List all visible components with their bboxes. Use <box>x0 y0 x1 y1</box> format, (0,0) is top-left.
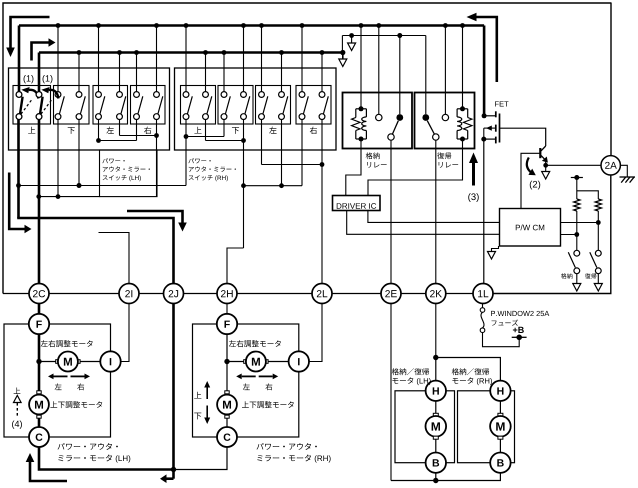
FET source node <box>481 137 496 142</box>
flow arrow (down, mid-left above 2J) <box>127 211 187 232</box>
transistor Q (relay driver) <box>540 146 548 163</box>
wire retract relay output to 2E <box>390 140 392 284</box>
label 左右調整モータ (LH) <box>41 340 93 347</box>
switch cell label 上 <box>28 127 35 134</box>
off-page arrow at relay feed <box>348 36 356 51</box>
switch cell label 右 <box>310 127 317 134</box>
switch RH 左L <box>259 23 268 119</box>
wire M1 to I (LH) <box>80 361 100 363</box>
RH mirror motor box <box>193 324 299 437</box>
thick path F-M-C (LH motor) <box>38 333 41 427</box>
terminal F (RH) <box>217 314 237 334</box>
ground arrow 復帰 switch <box>594 274 602 291</box>
return relay box (復帰リレー) <box>415 93 475 149</box>
label 右 (RH) <box>265 383 272 390</box>
connector 2H <box>217 284 237 304</box>
label 上下調整モータ (RH) <box>242 401 294 408</box>
wire RH link 左L-右R <box>262 120 325 167</box>
wire LH 左L to 右L <box>96 120 136 143</box>
label P/W CM <box>516 225 544 231</box>
wire branch to H(RH) <box>436 358 501 381</box>
flow arrow (left, top-right) <box>467 13 497 82</box>
wire right border 2A to 1L row <box>492 175 611 294</box>
arrow 左 (RH) <box>236 374 256 380</box>
label パワー・アウタ・ミラー・スイッチ(LH) <box>102 158 150 181</box>
wire RH 上R to 下R <box>206 120 246 143</box>
wire return coil to DRIVER IC <box>368 139 463 196</box>
switch RH 右L <box>299 23 308 119</box>
wire RH 下R to 2H <box>227 248 244 284</box>
outer frame wire (top and left border) <box>3 3 612 294</box>
label パワー・アウタ・ミラー・モータ (RH) <box>257 443 331 463</box>
label 左右調整モータ (RH) <box>229 340 281 347</box>
label +B <box>513 327 524 333</box>
motor M (RH retract) <box>490 401 511 453</box>
transistor emitter node <box>543 160 548 168</box>
wire P/W CM right lower <box>561 232 580 237</box>
switch LH 右R <box>154 23 163 119</box>
off-page arrow at bus B2 end <box>339 50 347 67</box>
terminal C (RH) <box>217 427 237 447</box>
label 上下調整モータ (LH) <box>50 401 102 408</box>
switch LH 上R (bold, actuated) <box>36 53 58 120</box>
resistor R1 <box>574 178 580 251</box>
wire relay contact feed <box>342 33 425 52</box>
2A chassis ground <box>620 165 636 182</box>
LH switch cell box 3 <box>93 86 128 125</box>
label (4) <box>12 420 22 428</box>
wire 2K junction to H(LH) <box>433 355 438 381</box>
DRIVER IC box <box>333 196 381 211</box>
terminal B (RH retract) <box>490 453 510 473</box>
switch LH 右L <box>134 50 143 119</box>
label 格納／復帰モータ (RH) <box>452 368 492 385</box>
wire P/W CM to transistor base <box>521 153 540 208</box>
wire C(RH) to junction <box>176 446 227 469</box>
label (1) left <box>24 75 34 83</box>
RH switch cell box 2 <box>218 86 253 125</box>
LH switch cell box 2 <box>54 86 90 125</box>
label P.WINDOW2 25A <box>491 311 549 316</box>
thick path 2J down to junction <box>171 303 176 479</box>
FET substrate arrow <box>484 126 496 140</box>
terminal H (RH retract) <box>490 381 510 401</box>
FET channel bars <box>495 111 497 143</box>
retract relay box (格納リレー) <box>343 93 413 149</box>
label 格納リレー <box>366 152 387 167</box>
wire DRIVER IC to P/W CM upper <box>368 211 500 223</box>
terminal I (RH) <box>289 351 309 371</box>
fuse P.WINDOW2 25A <box>480 303 485 332</box>
flow arrow (down, top-left) <box>6 17 49 57</box>
label 左 (RH) <box>243 383 250 390</box>
RH switch cell box 4 <box>296 86 331 125</box>
arrow 左 (LH) <box>48 374 68 380</box>
label 格納／復帰モータ (LH) <box>392 368 431 385</box>
node bar above resistors <box>571 175 583 180</box>
flow arrow (up, labelled 3) <box>469 153 478 186</box>
motor M1 RH <box>244 352 268 372</box>
terminal I (LH) <box>100 351 120 371</box>
label フューズ <box>492 320 519 326</box>
connector 1L <box>473 284 493 304</box>
wire to M1 (RH) <box>227 361 244 363</box>
ground arrow 格納 switch <box>573 274 581 291</box>
thick path 上R to 2C <box>38 119 41 283</box>
connector 2K <box>426 284 446 304</box>
wire DRIVER IC to P/W CM lower <box>347 211 500 235</box>
label (1) right <box>43 75 53 83</box>
wire RH 右R to 2L <box>321 120 323 284</box>
motor M (LH retract) <box>426 401 447 453</box>
wire RH 上L output to common M line <box>185 120 187 186</box>
RH mirror switch outer box <box>175 68 337 150</box>
connector 2I <box>119 284 139 304</box>
wire 2K down <box>435 303 437 357</box>
switch RH 左R <box>279 50 288 119</box>
label FET <box>495 101 508 106</box>
LH switch cell box 1 <box>13 86 51 125</box>
curved arrow (2) <box>527 158 536 176</box>
wire connector row <box>3 293 473 295</box>
motor M2 RH <box>217 391 237 418</box>
wire return relay output to 2K <box>435 140 437 284</box>
switch cell label 右 <box>144 127 151 134</box>
connector 2C <box>29 284 49 304</box>
switch 復帰 (position sw) <box>590 250 601 273</box>
connector 2L <box>312 284 332 304</box>
thick path 上L to 2J <box>17 119 173 283</box>
switch LH 下R <box>76 50 85 119</box>
return relay NC contact <box>442 23 448 121</box>
outer frame wire (right border to 2A) <box>610 3 612 156</box>
connector 2A <box>601 156 620 175</box>
wire FET gate to transistor <box>500 128 546 146</box>
retract relay NO contact (closed, fed) <box>396 33 403 121</box>
label 上 with arrow (RH) <box>194 381 210 399</box>
switch cell label 下 <box>232 127 239 134</box>
switch cell label 上 <box>194 127 201 134</box>
terminal H (LH retract) <box>426 381 446 401</box>
wire to M1 (LH) <box>39 361 56 363</box>
motor M2 LH (上下調整モータ) <box>29 391 49 418</box>
label 左 (LH) <box>55 383 62 390</box>
return relay NO contact (closed, fed) <box>422 36 429 121</box>
wire bus1 to retract coil <box>359 23 364 108</box>
resistor R2 branch <box>577 191 602 251</box>
switch LH 左R <box>117 50 126 119</box>
terminal C (LH) <box>29 427 49 447</box>
flow arrow (right, top-left) <box>32 38 56 60</box>
wire LH 下R stub <box>77 120 82 188</box>
arrow 右 (RH) <box>259 374 279 380</box>
terminal F (LH) <box>29 314 49 334</box>
label 復帰リレー <box>437 152 458 167</box>
label (2) <box>530 181 540 190</box>
wire 2H to F(RH) <box>226 303 228 314</box>
P/W CM ground <box>488 246 499 259</box>
wire M2 to C (RH) <box>226 418 228 428</box>
switch RH 上L <box>183 23 192 119</box>
return relay armature <box>427 121 439 141</box>
label DRIVER IC <box>337 203 376 209</box>
retract motor RH box <box>458 391 515 463</box>
wire F to junction (RH) <box>224 334 229 392</box>
switch cell label 左 <box>269 127 276 134</box>
retract relay coil <box>352 106 367 141</box>
LH switch cell box 4 <box>131 86 166 125</box>
thick wire bus B1 down to FET drain <box>483 26 486 115</box>
wire LH 下L stub <box>56 120 61 200</box>
switch RH 下L <box>221 50 230 119</box>
wire LH 左L to 2I <box>99 233 130 284</box>
wire P/W CM right upper <box>561 220 601 225</box>
wire 2I to I(LH) <box>120 303 129 361</box>
LH switch label box <box>100 150 158 197</box>
switch cell label 下 <box>68 127 75 134</box>
retract relay armature <box>388 121 399 141</box>
P/W CM box <box>500 209 561 247</box>
label パワー・アウタ・ミラー・スイッチ(RH) <box>188 158 236 181</box>
switch LH 上L (bold, actuated) <box>16 26 38 120</box>
terminal B (LH retract) <box>426 453 446 473</box>
connector 2E <box>381 284 401 304</box>
label 格納 small <box>561 273 572 279</box>
flow arrow (right, left-mid at 2C line) <box>9 173 31 234</box>
retract relay NC contact <box>376 23 382 121</box>
switch LH 下L <box>55 23 64 119</box>
wire fuse to +B <box>483 333 520 347</box>
FET gate bar <box>499 114 501 143</box>
flow arrow (up, bottom-left) <box>26 453 67 481</box>
wire 2E down to motor rail <box>390 303 392 480</box>
RH switch cell box 3 <box>256 86 291 125</box>
wire emitter to 2A <box>546 164 601 166</box>
switch LH 左L <box>96 23 105 119</box>
label LH switch line2 wire <box>36 194 99 199</box>
arrow 右 (LH) <box>71 374 91 380</box>
label 復帰 small <box>585 273 597 279</box>
wire FET source to 1L <box>483 139 485 284</box>
return relay coil <box>457 106 472 141</box>
wire LH 左R to 右R <box>120 120 159 197</box>
wire common M line <box>16 183 186 188</box>
motor M1 LH (左右調整モータ) <box>56 352 80 372</box>
RH switch cell box 1 <box>181 86 216 125</box>
bus wire B1 (upper thick bus) <box>19 24 484 27</box>
wire RH lower link 下R-左R-右L <box>241 120 302 249</box>
switch RH 右R <box>319 50 328 119</box>
label 上 with dashed arrow (4) <box>14 388 22 417</box>
wire M1 to I (RH) <box>268 361 289 363</box>
LH mirror switch outer box <box>9 68 170 150</box>
wire RH 上L to 下L <box>184 120 224 139</box>
thick path C to junction <box>39 446 174 469</box>
LH mirror motor box <box>4 324 111 437</box>
label (3) <box>468 193 478 202</box>
wire bus1 to return coil <box>460 23 465 108</box>
connector 2J <box>164 284 184 304</box>
junction dot LH motor <box>36 359 41 364</box>
switch 格納 (position sw) <box>568 250 579 273</box>
flow arrow (left, bottom-mid) <box>160 474 174 483</box>
switch RH 下R <box>241 23 250 119</box>
FET drain node <box>482 113 496 118</box>
wire retract coil to DRIVER IC <box>346 139 361 196</box>
switch RH 上R <box>203 50 212 119</box>
label 右 (LH) <box>77 383 84 390</box>
thick path 2C-F <box>38 303 41 314</box>
retract motor LH box <box>395 391 455 463</box>
+B terminal <box>512 335 527 341</box>
wire motor ground rail <box>391 473 500 483</box>
bus wire B2 (lower thick bus) <box>39 51 343 54</box>
label 下 with arrow (RH) <box>194 406 210 425</box>
label パワー・アウタ・ミラー・モータ (LH) <box>58 443 131 463</box>
emitter ground arrow <box>542 165 550 179</box>
switch cell label 左 <box>106 127 113 134</box>
wire 2L to I(RH) <box>309 303 323 361</box>
